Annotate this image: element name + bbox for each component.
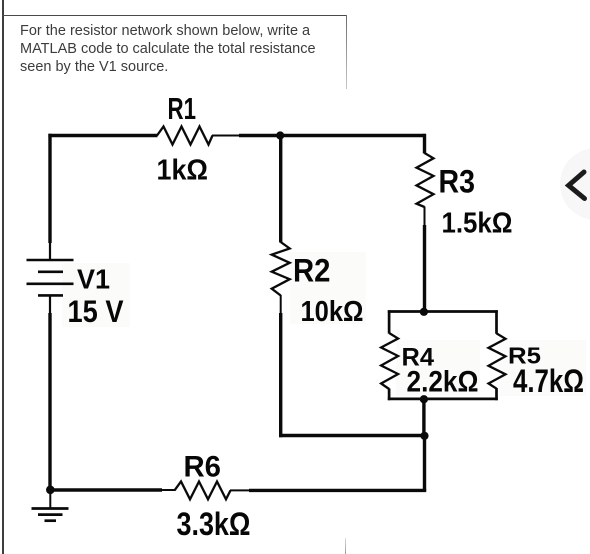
- label R6: [184, 451, 222, 484]
- resistor R6: [175, 482, 251, 500]
- label 1.5kOhm: [442, 208, 513, 240]
- svg-text:2.2kΩ: 2.2kΩ: [407, 366, 479, 399]
- label R4: [402, 344, 435, 372]
- wire: R5 branch top stub: [495, 310, 498, 334]
- wire: right vertical (parallel bottom to bottom corner): [422, 399, 426, 491]
- svg-text:R3: R3: [439, 164, 476, 200]
- question text: [20, 22, 350, 76]
- question box right border: [346, 15, 347, 89]
- label R3: [439, 164, 476, 200]
- wire: R5 branch bottom stub: [495, 388, 498, 400]
- bottom divider line: [345, 538, 346, 554]
- wire: middle vertical bottom (R2 to bottom-middle corner): [279, 313, 282, 437]
- faint label highlight backgrounds: [62, 252, 586, 396]
- node: junction dot parallel top: [420, 308, 428, 316]
- label 10kOhm: [301, 296, 364, 328]
- wire: left vertical V1 top: [48, 134, 51, 260]
- label 2.2kOhm: [407, 366, 479, 399]
- label 4.7kOhm: [513, 363, 584, 399]
- resistor R2: [272, 242, 290, 314]
- svg-text:10kΩ: 10kΩ: [301, 296, 364, 328]
- wire: right vertical top (corner to R3): [423, 134, 426, 154]
- label 1kOhm: [157, 155, 209, 187]
- wire: middle vertical top (junction to R2): [279, 136, 282, 243]
- wire: bottom horizontal left (V1 to R6): [50, 488, 175, 491]
- wire: parallel box bottom: [388, 398, 498, 401]
- wire: parallel box top: [388, 310, 498, 313]
- left page border: [2, 0, 4, 554]
- question box top border: [2, 15, 346, 16]
- resistor R3: [417, 153, 434, 226]
- svg-text:3.3kΩ: 3.3kΩ: [177, 506, 251, 542]
- resistor R4: [381, 333, 398, 389]
- label 15 V: [68, 293, 124, 329]
- svg-text:R1: R1: [168, 92, 197, 126]
- ground: [32, 490, 69, 521]
- wire: left vertical V1 bottom: [49, 295, 51, 490]
- svg-text:R2: R2: [293, 253, 331, 289]
- wire: top left horizontal (V1 top to R1): [48, 134, 157, 137]
- svg-text:V1: V1: [77, 264, 110, 295]
- svg-text:15 V: 15 V: [68, 293, 124, 329]
- label R1: [168, 92, 197, 126]
- label R2: [293, 253, 331, 289]
- resistor R1: [157, 127, 240, 145]
- svg-text:1.5kΩ: 1.5kΩ: [442, 208, 513, 240]
- node: junction dot parallel bottom: [420, 395, 428, 403]
- svg-text:R6: R6: [184, 451, 222, 484]
- battery V1: [27, 260, 74, 295]
- label 3.3kOhm: [177, 506, 251, 542]
- label R5: [508, 343, 541, 369]
- wire: right vertical (R3 to parallel node): [423, 225, 426, 313]
- wire: R4 branch top stub: [388, 310, 391, 333]
- svg-text:4.7kΩ: 4.7kΩ: [513, 363, 584, 399]
- node: junction dot top middle: [276, 131, 284, 139]
- label V1: [77, 264, 110, 295]
- node: junction dot middle-right: [420, 432, 428, 440]
- wire: R4 branch bottom stub: [388, 389, 391, 401]
- resistor R5: [489, 333, 506, 388]
- wire: top horizontal R1 to top-right corner: [239, 134, 426, 137]
- wire: bottom horizontal right (R6 to right corner): [249, 489, 426, 492]
- svg-text:1kΩ: 1kΩ: [157, 155, 209, 187]
- wire: middle horizontal (to right branch): [279, 434, 425, 437]
- node: junction dot ground: [46, 486, 55, 495]
- nav chevron circle button: [560, 148, 590, 220]
